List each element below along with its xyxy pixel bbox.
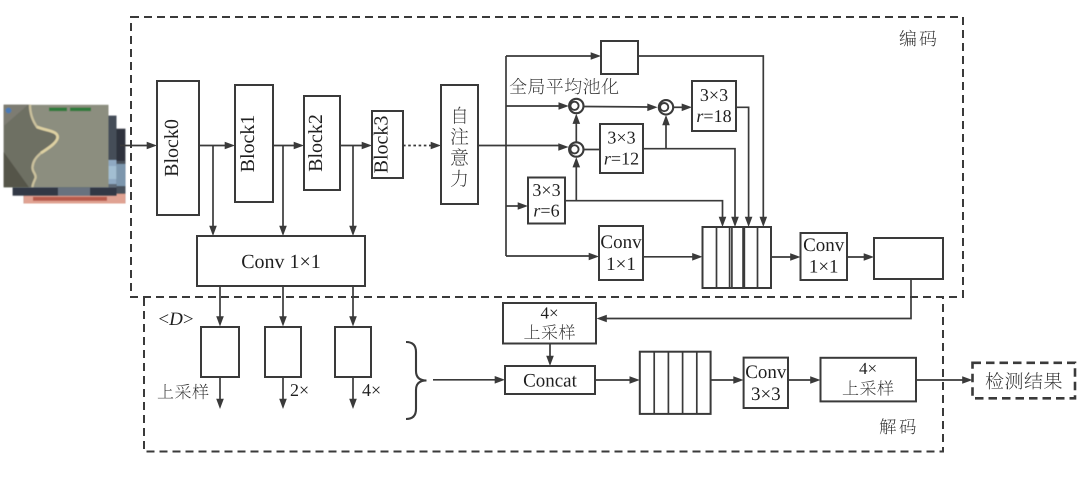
wire Conv1x1 to feature stack with arrow xyxy=(643,253,703,261)
wire r6 line up to node2 with arrow xyxy=(573,157,581,201)
node circle1 (fusion) xyxy=(569,99,583,113)
encoder label 编码 xyxy=(900,30,937,47)
svg-text:Conv: Conv xyxy=(745,362,787,383)
block Concat xyxy=(505,366,595,394)
wire Block0-to-Block1 with arrow xyxy=(199,142,235,150)
wire pooling box to concat stack (right then down) with arrow xyxy=(638,56,767,227)
wire node3 to conv r18 with arrow xyxy=(673,104,692,112)
wire Concat to decoder feature stack with arrow xyxy=(595,376,640,384)
block Block0 xyxy=(157,81,199,215)
wire Block1-to-Block2 with arrow xyxy=(273,142,304,150)
wire trunk to node2 with arrow xyxy=(506,143,569,151)
input image stack - front photo (weld pool) xyxy=(4,105,109,187)
block final 4x upsample xyxy=(821,358,917,402)
wire Conv1x1 down to upsample box2 with arrow xyxy=(279,286,287,327)
svg-text:Concat: Concat xyxy=(523,371,578,392)
svg-text:Block0: Block0 xyxy=(161,119,183,177)
wire r6 output to concat stack with arrow xyxy=(565,201,726,227)
svg-text:Block2: Block2 xyxy=(305,114,327,172)
label 上采样 (upsample) xyxy=(158,384,209,399)
wire below box1 with arrow xyxy=(216,377,224,409)
wire below box3 with arrow xyxy=(349,377,357,409)
wire node2 to conv r12 xyxy=(584,149,601,151)
wire trunk to conv r6 with arrow xyxy=(506,202,528,210)
decoder label 解码 xyxy=(880,418,916,434)
svg-text:r=18: r=18 xyxy=(696,106,731,126)
wire node1 to node3 with arrow xyxy=(584,104,658,112)
dotted wire Block3-to-selfattention with arrow xyxy=(403,142,441,150)
node circle2 (fusion) xyxy=(569,142,583,156)
block upsample box1 xyxy=(201,327,239,377)
wire 4x upsample down to Concat with arrow xyxy=(546,344,554,367)
wire Conv1x1 down to upsample box3 with arrow xyxy=(349,286,357,327)
wire trunk to pooling box with arrow xyxy=(506,52,601,60)
svg-text:1×1: 1×1 xyxy=(809,257,839,278)
svg-text:Conv 1×1: Conv 1×1 xyxy=(241,251,321,273)
block upsample box2 xyxy=(265,327,301,377)
svg-text:2×: 2× xyxy=(290,380,309,400)
svg-text:3×3: 3×3 xyxy=(532,180,560,200)
svg-text:<D>: <D> xyxy=(158,309,193,330)
wire trunk to node1 with arrow xyxy=(506,102,569,110)
wire Conv3x3 to final 4x upsample with arrow xyxy=(788,376,821,384)
svg-text:3×3: 3×3 xyxy=(607,128,635,148)
block encoder Conv 1x1 xyxy=(599,226,643,280)
wire Block2-to-Block3 with arrow xyxy=(340,142,372,150)
block detection result 检测结果 (dashed) xyxy=(973,363,1076,399)
block 3x3 r=6 atrous conv xyxy=(528,178,565,224)
wire brace to Concat with arrow xyxy=(433,376,505,384)
feature stack (striped concat box, decoder) xyxy=(640,352,711,414)
wire Conv1x1-2 to output box with arrow xyxy=(847,253,874,261)
svg-text:Conv: Conv xyxy=(600,232,642,253)
trunk vertical wire xyxy=(505,56,507,256)
svg-text:3×3: 3×3 xyxy=(700,85,728,105)
wire tap after Block1 down to Conv1x1 xyxy=(279,146,287,237)
block self-attention 自注意力 xyxy=(441,85,478,204)
wire tap after Block2 down to Conv1x1 xyxy=(349,146,357,237)
input image stack - back photo xyxy=(24,129,126,204)
block Block3 xyxy=(371,111,404,178)
wire r12 line up to node3 with arrow xyxy=(662,115,670,149)
wire r12 output to concat stack with arrow xyxy=(643,149,739,227)
svg-text:Conv: Conv xyxy=(803,235,845,256)
wire Conv1x1 down to upsample box1 with arrow xyxy=(216,286,224,327)
wire encoder output down-left to 4x upsample with arrow xyxy=(597,279,912,322)
feature stack (striped concat box, encoder) xyxy=(703,227,772,288)
label 全局平均池化 xyxy=(510,78,619,95)
svg-text:3×3: 3×3 xyxy=(751,384,781,405)
wire decoder stack to Conv3x3 with arrow xyxy=(711,376,744,384)
svg-text:1×1: 1×1 xyxy=(606,254,636,275)
svg-text:4×: 4× xyxy=(362,380,381,400)
svg-text:Block1: Block1 xyxy=(237,115,259,173)
block 3x3 r=12 atrous conv xyxy=(600,124,643,173)
wire trunk to encoder Conv1x1 with arrow xyxy=(506,253,599,261)
encoder dashed boundary box xyxy=(131,17,963,297)
wire r18 output to concat stack with arrow xyxy=(736,107,752,227)
block Conv 1x1 (projection) xyxy=(801,233,848,280)
block global-average-pooling (small box) xyxy=(601,41,638,74)
svg-text:r=6: r=6 xyxy=(533,201,559,221)
block upsample box3 xyxy=(335,327,371,377)
svg-text:4×: 4× xyxy=(540,304,558,323)
wire node2 up to node1 with arrow xyxy=(573,114,581,142)
input image stack - middle photo xyxy=(13,116,117,196)
block Block1 xyxy=(235,85,273,202)
block 3x3 r=18 atrous conv xyxy=(692,81,736,131)
svg-text:Block3: Block3 xyxy=(371,116,393,174)
block Conv 3x3 xyxy=(744,358,788,408)
block Block2 xyxy=(304,96,340,190)
curly brace grouping xyxy=(406,342,427,419)
wire selfattention output to trunk xyxy=(478,145,506,147)
wire feature stack to Conv1x1-2 with arrow xyxy=(771,253,801,261)
wire to detection result with arrow xyxy=(916,376,973,384)
block 4x upsample (skip) xyxy=(503,303,596,344)
wire input-to-Block0 with arrow xyxy=(120,142,157,150)
node circle3 (fusion) xyxy=(659,100,673,114)
block encoder output feature box xyxy=(874,238,943,279)
block Conv 1x1 (low-level features) xyxy=(197,236,365,286)
decoder dashed boundary (left, bottom, right sides) xyxy=(144,298,943,452)
svg-text:4×: 4× xyxy=(859,359,877,378)
wire tap after Block0 down to Conv1x1 xyxy=(209,146,217,237)
svg-text:r=12: r=12 xyxy=(604,149,639,169)
wire below box2 with arrow xyxy=(279,377,287,409)
